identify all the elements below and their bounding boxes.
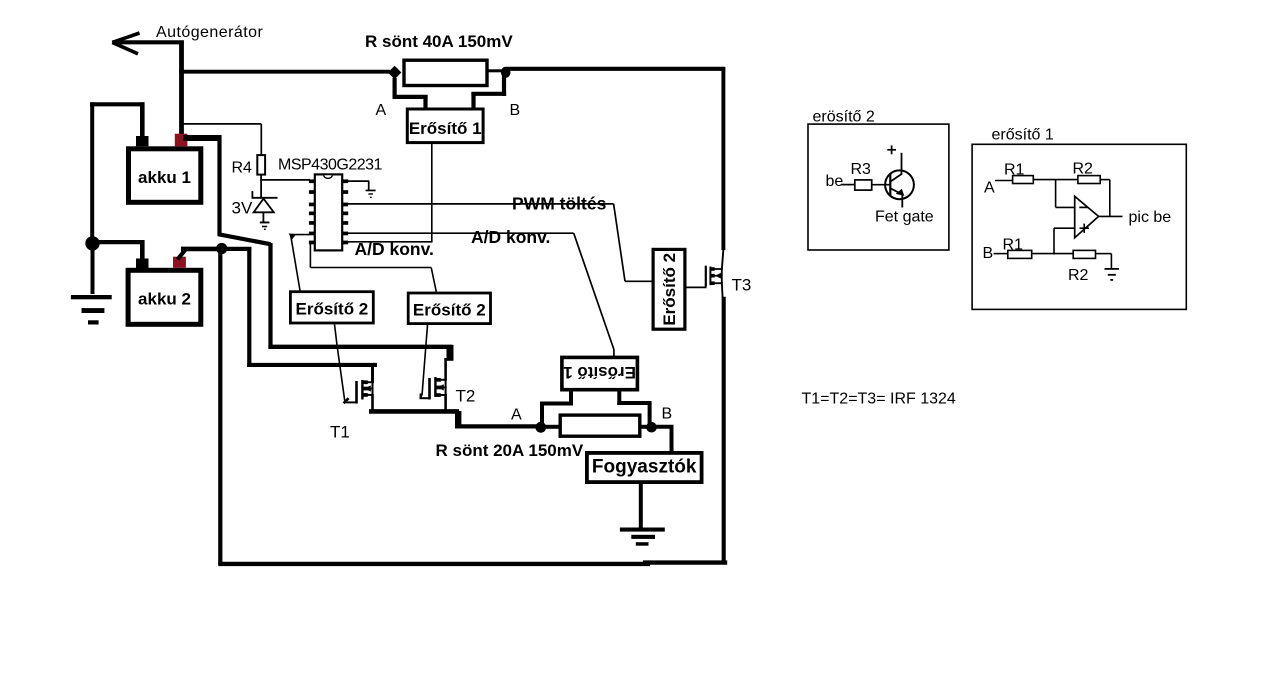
- svg-text:MSP430G2231: MSP430G2231: [278, 157, 383, 174]
- wire node A to shunt: [545, 425, 560, 429]
- svg-text:be: be: [826, 173, 844, 190]
- resistor R sont 20A (shunt): [560, 415, 640, 436]
- wire Erosito2 vertical output to T3 gate: [687, 286, 707, 288]
- wire node B to Fogyasztok: [655, 427, 674, 452]
- svg-text:R sönt 20A 150mV: R sönt 20A 150mV: [436, 441, 584, 460]
- wire be to R3: [841, 184, 856, 186]
- svg-text:T2: T2: [456, 387, 476, 406]
- wire junction to ground: [91, 249, 95, 294]
- wire akku1 plus to right vertical: [183, 135, 221, 141]
- wire IC left pin6 with arrow to Erosito2 box1: [291, 235, 310, 291]
- wire step down to T2 drain: [447, 345, 454, 361]
- wire T1 bus horizontal: [247, 363, 377, 367]
- op-amp block Erosito 1 flipped: [562, 357, 638, 389]
- svg-text:Erősítő 2: Erősítő 2: [660, 253, 679, 326]
- wire shunt right to node B: [487, 69, 502, 72]
- wire akku1 plus diagonal: [218, 234, 271, 244]
- svg-text:3V: 3V: [232, 199, 253, 218]
- op-amp block Erosito 2 box2: [408, 293, 490, 324]
- svg-text:Fet gate: Fet gate: [875, 209, 934, 226]
- wire akku1 negative up-over-down: [90, 102, 144, 237]
- wire akku2 negative up-left to junction: [93, 240, 145, 260]
- battery akku 1: [129, 149, 201, 203]
- node B junction dot at 40A shunt: [501, 67, 511, 78]
- wire T2 bus horizontal: [268, 345, 452, 349]
- svg-text:Autógenerátor: Autógenerátor: [156, 24, 263, 41]
- svg-text:erősítő 1: erősítő 1: [992, 127, 1054, 144]
- wire right rail upper segment: [721, 67, 725, 250]
- wire bottom rail right part: [643, 560, 727, 564]
- IC pins left: [309, 179, 315, 244]
- transistor Q1 base bar: [889, 174, 891, 197]
- svg-text:A/D konv.: A/D konv.: [355, 239, 434, 259]
- ground symbol in erosito1 detail: [1105, 268, 1119, 281]
- wire flipped Erosito1 right lead to node B: [617, 391, 651, 425]
- box erosito 1 detail: [972, 144, 1186, 309]
- wire PWM line from IC right pin3: [348, 204, 653, 281]
- svg-text:R sönt 40A 150mV: R sönt 40A 150mV: [365, 32, 513, 51]
- IC pins right: [342, 179, 348, 244]
- ground symbol at IC pin1: [366, 190, 376, 198]
- svg-text:akku 1: akku 1: [138, 168, 191, 187]
- wire junction2 right: [222, 247, 251, 251]
- wire T3 drain to rail: [722, 249, 724, 270]
- resistor R2 top: [1078, 176, 1100, 184]
- akku1 positive terminal (red): [175, 134, 188, 147]
- svg-text:R4: R4: [232, 160, 253, 177]
- wire op-amp output: [1099, 215, 1123, 217]
- resistor R3: [855, 180, 872, 190]
- ground symbol main: [71, 295, 112, 325]
- IC notch: [324, 175, 332, 178]
- node A junction dot at 20A shunt: [535, 422, 546, 433]
- wire R4 bottom to MSP pin1: [260, 175, 310, 198]
- node junction dot akku negatives: [85, 236, 99, 250]
- op-amp U1 triangle: [1075, 196, 1099, 237]
- node A junction diamond at 40A shunt: [388, 66, 402, 79]
- transistor Q1 emitter with arrow: [891, 188, 903, 207]
- wire R2 bottom to ground: [1096, 254, 1112, 269]
- zener diode 3V: [252, 191, 278, 222]
- svg-text:A: A: [984, 180, 995, 197]
- transistor T2 (MOSFET): [420, 377, 447, 400]
- svg-text:T1: T1: [330, 423, 350, 442]
- wire junction2 vertical down to T1 bus: [247, 247, 251, 367]
- wire Fogyasztok to ground: [639, 482, 643, 529]
- transistor Q1 circle: [885, 170, 914, 199]
- wire R2 feedback to output: [1100, 180, 1110, 217]
- op-amp minus: [1079, 206, 1087, 208]
- wire T1 source to bottom bus: [371, 394, 374, 413]
- wire akku1 plus vertical to T2 bus: [268, 243, 272, 349]
- resistor R2 bottom: [1073, 250, 1095, 258]
- svg-text:Erősítő 2: Erősítő 2: [413, 301, 486, 320]
- svg-text:A/D konv.: A/D konv.: [471, 227, 550, 247]
- resistor R sont 40A (shunt): [404, 60, 487, 85]
- wire 40A shunt A lead to Erosito1: [393, 78, 428, 109]
- akku1 negative terminal: [136, 136, 149, 146]
- svg-text:B: B: [983, 245, 994, 262]
- transistor T3 (MOSFET): [706, 266, 723, 287]
- wire IC left pin7 around to Erosito2 box2: [310, 244, 436, 292]
- resistor R1 top: [1013, 176, 1034, 184]
- svg-text:Erősítő 2: Erősítő 2: [296, 300, 369, 319]
- wire bottom source bus: [369, 411, 538, 427]
- svg-text:Erősítő 1: Erősítő 1: [409, 119, 482, 138]
- wire T2 source to bottom bus: [444, 394, 447, 413]
- svg-text:pic be: pic be: [1129, 209, 1172, 226]
- wire main left vertical rail: [218, 249, 222, 566]
- svg-text:B: B: [510, 102, 521, 119]
- wire A to R1: [995, 180, 1014, 182]
- load block Fogyasztok: [587, 453, 702, 482]
- svg-text:R2: R2: [1068, 267, 1089, 284]
- svg-text:T3: T3: [732, 276, 752, 295]
- wire 40A shunt B lead to Erosito1: [471, 76, 506, 109]
- resistor R1 bottom: [1008, 250, 1032, 258]
- wire T2 drain to step: [444, 358, 447, 381]
- node B junction dot at 20A shunt: [646, 422, 657, 433]
- wire T1 drain to bus: [371, 364, 374, 383]
- wire R1 bottom to R2 bottom: [1032, 253, 1074, 255]
- svg-text:Fogyasztók: Fogyasztók: [592, 457, 697, 478]
- resistor R4: [257, 155, 265, 175]
- op-amp block Erosito 1 (top): [407, 109, 483, 143]
- wire right rail lower segment: [722, 297, 726, 564]
- op-amp block Erosito 2 box1: [290, 292, 373, 323]
- svg-text:R3: R3: [851, 161, 872, 178]
- wire branch to 40A shunt: [179, 70, 390, 74]
- svg-text:erösítő 2: erösítő 2: [813, 109, 875, 126]
- svg-text:PWM töltés: PWM töltés: [512, 194, 607, 214]
- wire non-inverting input: [1054, 228, 1075, 254]
- plus sign: [887, 145, 896, 154]
- wire Erosito2 box2 to T2 gate: [422, 325, 428, 396]
- ground symbol under Fogyasztok: [620, 528, 665, 546]
- wire T3 source to rail: [721, 282, 724, 298]
- wire IC right pin1 to ground: [348, 181, 369, 190]
- akku2 positive terminal (red): [173, 257, 186, 268]
- wire Erosito2 box1 to T1 gate: [335, 324, 345, 400]
- box erosito 2 detail: [808, 124, 949, 250]
- akku2 negative terminal: [136, 259, 149, 269]
- svg-text:T1=T2=T3= IRF 1324: T1=T2=T3= IRF 1324: [802, 391, 956, 408]
- svg-text:A: A: [376, 102, 387, 119]
- wire akku1 plus thin tap to R4: [183, 124, 261, 156]
- transistor Q1 collector: [891, 153, 903, 182]
- wire R1 to R2 with junction to inverting input: [1033, 180, 1078, 208]
- node junction2 dot: [216, 243, 227, 254]
- wire node B to right rail: [506, 67, 725, 71]
- svg-text:Erősítő 1: Erősítő 1: [563, 363, 636, 382]
- wire vertical from generator node down to akku1 plus: [179, 41, 184, 138]
- wire akku2 plus to junction2: [181, 247, 222, 252]
- arrow to autogenerator: [112, 33, 184, 54]
- wire shunt right to node B: [640, 425, 648, 429]
- ground symbol under zener: [260, 222, 270, 231]
- battery akku 2: [128, 270, 201, 324]
- arrowhead at IC left pin6: [289, 233, 297, 239]
- arrow tick at T2 gate: [420, 394, 422, 400]
- wire akku2 plus diagonal stub: [178, 250, 186, 260]
- svg-text:akku 2: akku 2: [138, 290, 191, 309]
- IC U1 MSP430G2231 body: [315, 174, 342, 250]
- wire akku1 plus vertical down: [217, 135, 221, 236]
- wire IC right pin7 to Erosito1 output: [348, 241, 432, 243]
- wire flipped Erosito1 left lead to node A: [540, 391, 573, 425]
- wire R3 to transistor base: [872, 184, 891, 186]
- transistor T1 (MOSFET): [345, 380, 374, 404]
- op-amp block Erosito 2 vertical: [653, 249, 685, 329]
- svg-text:A: A: [511, 407, 522, 424]
- svg-text:B: B: [662, 406, 673, 423]
- wire B to R1 bottom: [994, 253, 1009, 255]
- wire Erosito1 output down: [431, 143, 433, 243]
- wire AD line from IC right pin6 to flipped Erosito1: [348, 233, 614, 356]
- arrow tick at T1 gate: [344, 398, 349, 403]
- wire bottom rail left part: [218, 562, 650, 566]
- op-amp plus: [1080, 224, 1090, 233]
